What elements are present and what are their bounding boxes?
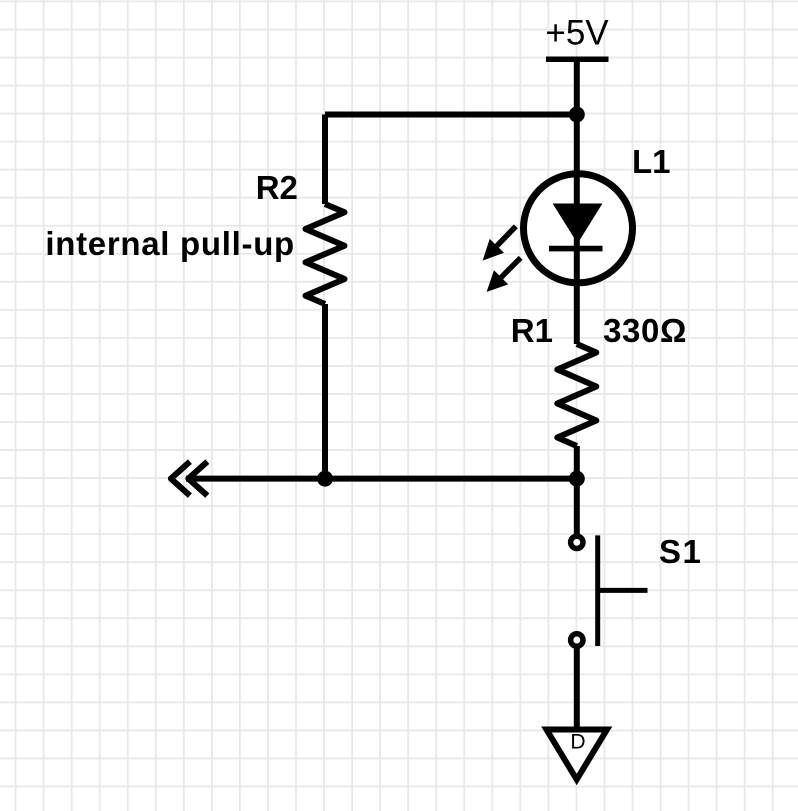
svg-text:D: D [570,730,585,753]
svg-text:R1: R1 [511,312,553,349]
svg-text:330Ω: 330Ω [603,312,687,349]
svg-text:internal pull-up: internal pull-up [45,225,295,262]
svg-text:R2: R2 [256,169,298,206]
svg-text:+5V: +5V [545,13,609,52]
svg-text:L1: L1 [632,143,671,180]
svg-text:S1: S1 [659,533,702,570]
